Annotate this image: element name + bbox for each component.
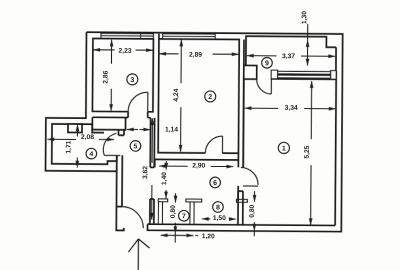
dimension 2,08 room 4 <box>47 138 113 141</box>
svg-text:3,34: 3,34 <box>285 105 298 112</box>
top wall mullion between windows <box>158 34 160 39</box>
dimension 1,14 hall top <box>127 128 150 130</box>
svg-text:1,14: 1,14 <box>165 127 178 134</box>
bottom inner wall line <box>148 224 336 225</box>
outer wall boundary <box>45 32 343 232</box>
svg-text:0,80: 0,80 <box>170 205 177 218</box>
room 7 left wall <box>158 202 162 225</box>
dimension 2,86 room 3 <box>110 40 112 111</box>
alcove cap A (door jamb wall, room 7) <box>158 199 167 202</box>
svg-text:1,71: 1,71 <box>65 140 72 153</box>
room number circles <box>86 56 291 222</box>
svg-text:4: 4 <box>89 151 93 158</box>
wall between rooms 6/8 and room 1 (pillar with door) <box>238 40 244 225</box>
door room6-room1 arc <box>241 167 259 186</box>
svg-text:7: 7 <box>182 213 186 220</box>
texts (unrotated overlay, same rotation applied) <box>65 9 312 241</box>
dimension 1,40 opening hall-room6 <box>165 161 167 198</box>
room 3 interior <box>92 38 153 111</box>
room label 3 <box>127 74 138 85</box>
room 3 door leaf and arc <box>128 92 148 112</box>
svg-text:1,50: 1,50 <box>213 215 226 222</box>
svg-text:3: 3 <box>130 77 134 84</box>
room 4 shaft tab <box>68 124 82 132</box>
entrance door arc <box>122 207 144 229</box>
room 4 interior <box>52 124 117 164</box>
entrance door jamb <box>116 206 121 208</box>
room label 5 <box>130 141 141 152</box>
dimension 2,90 room 6 <box>159 165 233 168</box>
dimension 0,80 room 7 <box>174 193 176 242</box>
wall between room 4 and hall <box>116 130 124 207</box>
room 6 interior <box>155 159 239 199</box>
room label 7 <box>179 210 190 221</box>
svg-text:1,40: 1,40 <box>161 172 168 185</box>
svg-text:2,08: 2,08 <box>81 134 94 141</box>
svg-text:5,25: 5,25 <box>304 145 311 158</box>
dimension 2,89 room 2 <box>159 53 238 56</box>
window room 3 <box>101 33 154 38</box>
balcony door arc <box>257 79 272 94</box>
dimension 2,23 room 3 <box>93 49 152 51</box>
dimension 4,24 room 2 <box>180 40 183 152</box>
svg-text:2,23: 2,23 <box>119 48 132 55</box>
svg-text:6: 6 <box>213 180 217 187</box>
svg-text:8: 8 <box>216 204 220 211</box>
svg-text:3,62: 3,62 <box>142 166 149 179</box>
alcove cap C (jamb at room 8 right) <box>236 199 247 202</box>
dimension 3,62 hall height <box>151 118 154 219</box>
dimension 1,71 room 4 <box>76 124 78 167</box>
svg-text:1,20: 1,20 <box>202 233 215 240</box>
svg-text:1: 1 <box>282 146 286 153</box>
svg-text:0,80: 0,80 <box>249 204 256 217</box>
balcony pillar step <box>244 65 257 79</box>
dimension 3,34 room 1 <box>245 107 336 110</box>
room label 2 <box>205 91 216 102</box>
svg-text:2: 2 <box>208 94 212 101</box>
wall between rooms 7 and 8 <box>190 202 194 225</box>
svg-text:2,89: 2,89 <box>189 52 202 59</box>
window room 2 <box>163 34 216 39</box>
room 2 interior <box>158 39 239 153</box>
room label 6 <box>210 177 221 188</box>
balcony 9 interior with top-right notch <box>246 36 336 71</box>
svg-text:3,37: 3,37 <box>282 53 295 60</box>
dimension 0,80 right (door room1) <box>253 191 255 236</box>
room label 4 <box>86 148 97 159</box>
svg-text:4,24: 4,24 <box>173 88 180 101</box>
svg-text:9: 9 <box>265 60 269 67</box>
window balcony / room 1 <box>271 70 336 79</box>
dimension 1,50 room 8 <box>202 218 236 220</box>
entrance arrow <box>128 239 149 270</box>
alcove cap B (T-wall between rooms 7 and 8) <box>186 199 202 202</box>
room label 8 <box>213 202 224 213</box>
dimension 1,20 entrance <box>161 234 198 236</box>
hall 5 interior right edge / spine wall <box>148 118 155 225</box>
dimension 1,30 balcony depth <box>306 24 308 65</box>
svg-text:5: 5 <box>134 143 138 150</box>
svg-text:2,86: 2,86 <box>103 70 110 83</box>
room 4 door leaf and arc <box>103 133 120 155</box>
room label 9 <box>262 57 273 68</box>
svg-text:1,30: 1,30 <box>301 11 308 24</box>
svg-text:2,90: 2,90 <box>192 162 205 169</box>
room 2 door leaf and arc <box>205 136 222 153</box>
wall chunk between hall and room 3/4 junction <box>92 111 150 130</box>
dimension 5,25 room 1 <box>311 81 312 225</box>
room 1 interior <box>243 71 336 226</box>
dimension 3,37 balcony <box>247 55 335 58</box>
room label 1 <box>278 142 289 153</box>
